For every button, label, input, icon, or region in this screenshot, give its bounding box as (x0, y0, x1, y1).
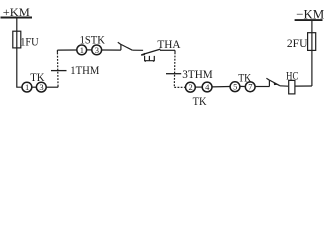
svg-text:2: 2 (188, 82, 192, 92)
svg-text:HC: HC (286, 71, 298, 83)
svg-text:1: 1 (25, 82, 29, 92)
svg-text:4: 4 (205, 82, 210, 92)
svg-text:1THM: 1THM (70, 65, 99, 77)
svg-text:5: 5 (233, 82, 237, 92)
svg-text:TK: TK (238, 72, 251, 84)
svg-text:THA: THA (157, 39, 180, 51)
svg-text:1STK: 1STK (80, 34, 105, 46)
svg-text:3THM: 3THM (182, 69, 212, 81)
svg-text:1FU: 1FU (20, 36, 38, 48)
svg-text:TK: TK (30, 72, 44, 84)
svg-text:2FU: 2FU (287, 38, 308, 50)
svg-text:−KM: −KM (296, 6, 324, 21)
svg-text:TK: TK (193, 96, 207, 108)
svg-text:+KM: +KM (3, 5, 30, 19)
